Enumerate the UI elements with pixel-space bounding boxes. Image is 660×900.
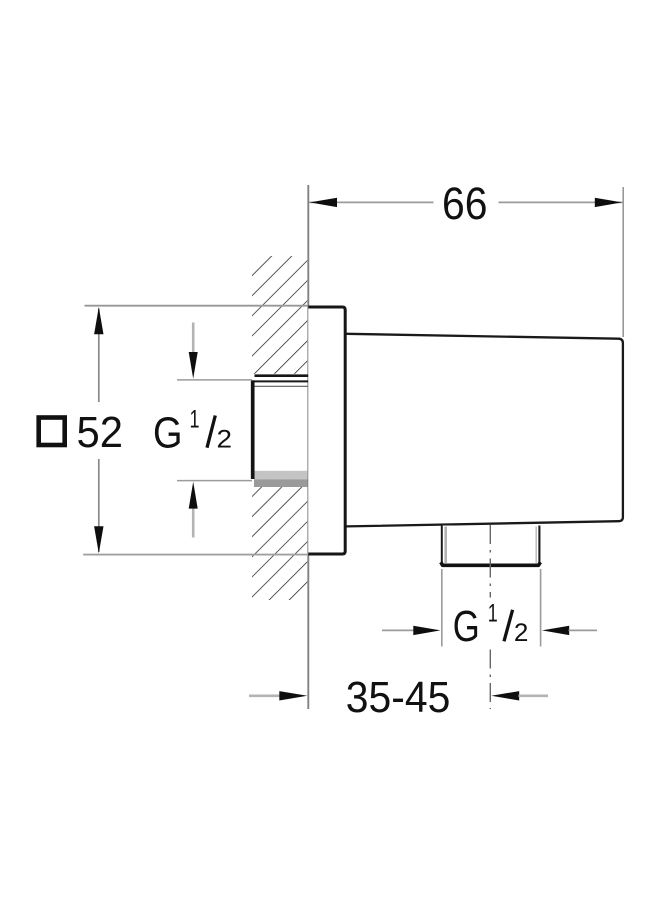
wire G12 dim line left bbox=[382, 629, 415, 631]
svg-text:2: 2 bbox=[217, 426, 233, 454]
wire outlet left edge bbox=[441, 526, 443, 564]
wire outlet centerline (dash-dot) bbox=[489, 525, 491, 598]
node pipe hole white cutout bbox=[251, 374, 309, 480]
node pipe shadow in hole bbox=[254, 479, 308, 487]
wall hatching bbox=[252, 256, 307, 600]
svg-text:1: 1 bbox=[190, 406, 200, 434]
node square symbol for 52 bbox=[39, 418, 65, 446]
node body block outline bbox=[347, 334, 623, 527]
wire outlet right inner shading bbox=[535, 527, 537, 564]
svg-text:66: 66 bbox=[442, 178, 488, 229]
wire pipe top inner line bbox=[253, 385, 308, 387]
svg-text:G: G bbox=[153, 408, 183, 457]
node pipe bottom shading bbox=[254, 471, 307, 480]
node arrow 52 down bbox=[94, 526, 103, 553]
node body block fill bbox=[347, 334, 623, 527]
wire dimension line 52 upper segment bbox=[98, 309, 100, 403]
label G 1/2 left bbox=[153, 406, 232, 458]
node arrow 66 left bbox=[310, 198, 337, 207]
wire hole top edge bbox=[255, 374, 309, 377]
svg-text:2: 2 bbox=[514, 619, 529, 647]
node 35-45 arrow right bbox=[279, 691, 307, 700]
wire G12 dim line right bbox=[569, 629, 598, 631]
node 35-45 arrow left bbox=[491, 691, 519, 700]
label G 1/2 bottom bbox=[453, 599, 529, 651]
wire extension line outlet right bbox=[540, 569, 542, 647]
wire extension line pipe bottom bbox=[177, 480, 252, 482]
wire outlet left inner shading bbox=[444, 527, 447, 564]
node outlet stub bbox=[442, 526, 540, 566]
node arrow 52 up bbox=[94, 307, 103, 334]
svg-text:52: 52 bbox=[77, 408, 124, 457]
wire outlet right edge bbox=[538, 526, 540, 564]
node G12 arrow left bbox=[542, 626, 569, 635]
svg-text:1: 1 bbox=[488, 599, 498, 627]
wire 35-45 dim left tail bbox=[249, 694, 280, 697]
wire pipe left edge bbox=[251, 380, 255, 479]
wire extension line outlet left bbox=[441, 569, 443, 647]
wire extension line right for 66 bbox=[622, 187, 624, 337]
node pipe dim arrow down bbox=[189, 352, 198, 379]
wire outlet bottom edge bbox=[441, 562, 541, 565]
wire dimension line 66 right segment bbox=[499, 201, 623, 203]
node arrow 66 right bbox=[595, 198, 622, 207]
wire wall face line / extension line for 66 and 35-45 bbox=[307, 185, 309, 709]
wire pipe dim bottom tail bbox=[192, 508, 195, 538]
node pipe dim arrow up bbox=[189, 482, 198, 509]
wire dimension line 52 lower segment bbox=[98, 459, 100, 552]
wire extension line 52 bottom bbox=[83, 554, 308, 556]
wire dimension line 66 left segment bbox=[309, 201, 434, 203]
wire 35-45 dim right tail bbox=[519, 694, 549, 697]
wire extension line 52 top bbox=[85, 305, 309, 307]
wire pipe top edge bbox=[251, 380, 308, 382]
svg-text:35-45: 35-45 bbox=[346, 673, 451, 722]
node flange plate bbox=[308, 307, 345, 554]
svg-text:G: G bbox=[453, 602, 480, 651]
wire extension line pipe top bbox=[177, 379, 252, 381]
node G12 arrow right bbox=[413, 626, 440, 635]
wire pipe dim top tail bbox=[192, 323, 195, 354]
